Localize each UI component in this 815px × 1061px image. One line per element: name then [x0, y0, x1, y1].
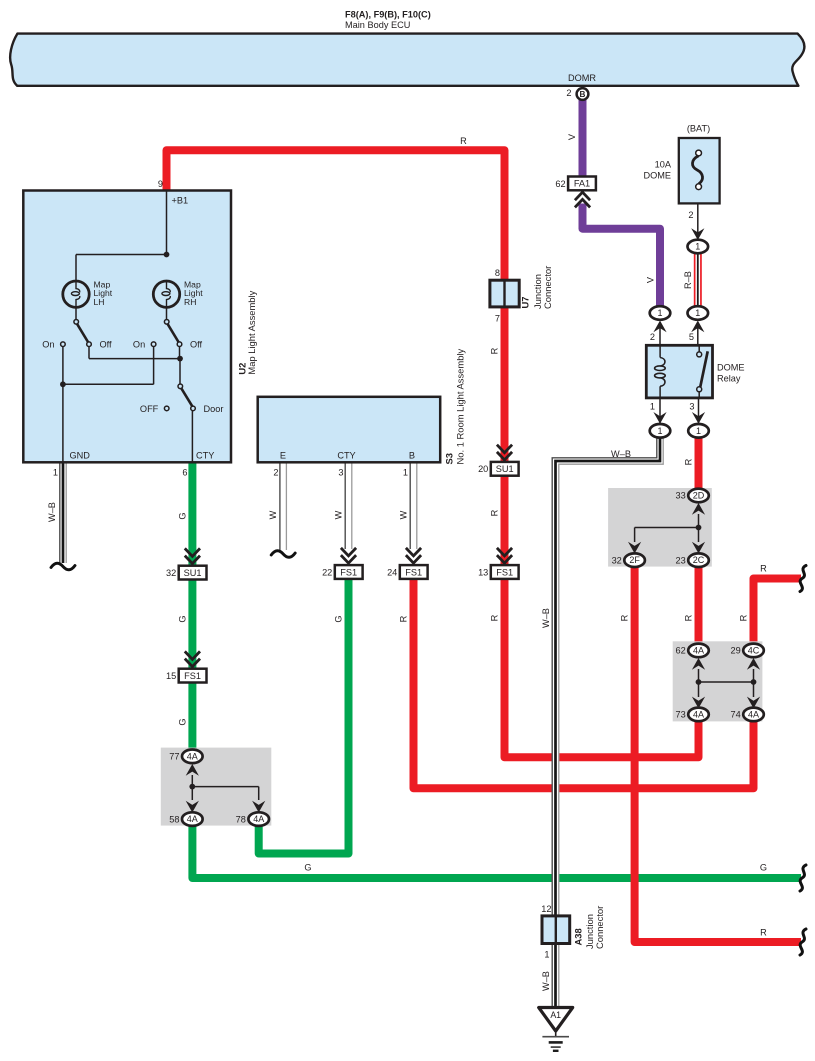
svg-text:FA1: FA1: [574, 179, 590, 189]
splice 32 2F oval: [624, 553, 645, 567]
junction connector U7 box: [490, 280, 519, 307]
splice 58 4A oval: [182, 812, 203, 826]
svg-text:Off: Off: [100, 340, 113, 350]
tear tilde on GND W-B wire: [51, 563, 75, 570]
svg-text:1: 1: [657, 426, 662, 436]
svg-text:2: 2: [650, 332, 655, 342]
wire inside from +B1 to node: [166, 191, 168, 255]
svg-text:DOME: DOME: [717, 363, 745, 373]
svg-text:G: G: [178, 718, 188, 725]
wire G from 22 FS1 down, left, up to 78-4A: [259, 578, 349, 854]
chevrons into 15 FS1: [185, 659, 200, 667]
svg-text:FS1: FS1: [496, 567, 513, 577]
svg-text:A38: A38: [573, 928, 584, 945]
svg-text:1: 1: [650, 402, 655, 412]
svg-text:RH: RH: [184, 297, 196, 307]
wire fuse pin2 to oval: [697, 203, 699, 240]
junction 20 SU1: [491, 462, 519, 476]
door switch OFF contact: [164, 406, 169, 411]
switch RH: [164, 320, 169, 325]
switch LH Off contact: [87, 342, 92, 347]
splice 29 4C oval: [743, 644, 764, 658]
wire bulb LH to switch: [75, 307, 77, 319]
wire R from relay pin3 oval to 2D oval: [695, 436, 703, 490]
wire bulb RH to switch: [166, 307, 168, 319]
wire W-B from relay pin1 oval to A38 to ground: [556, 436, 661, 1008]
svg-text:1: 1: [696, 426, 701, 436]
svg-text:W–B: W–B: [541, 608, 551, 628]
svg-text:32: 32: [166, 568, 176, 578]
svg-text:1: 1: [403, 468, 408, 478]
svg-text:13: 13: [478, 567, 488, 577]
svg-text:4A: 4A: [748, 709, 759, 719]
chevrons into 13 FS1: [497, 555, 512, 563]
wire node to GND pin: [62, 384, 64, 461]
arrow down into 2F: [628, 542, 641, 554]
wire to LH bulb: [76, 254, 167, 256]
wire W from room light E pin2: [280, 461, 287, 550]
relay pin2 oval: [650, 306, 671, 320]
svg-text:E: E: [280, 451, 286, 461]
junction FA1 box: [568, 177, 596, 191]
wire RH Off to node: [179, 347, 181, 359]
splice 77 4A oval: [182, 750, 203, 764]
svg-text:4A: 4A: [187, 814, 198, 824]
svg-text:15: 15: [166, 671, 176, 681]
gray splice block 4A/4C: [673, 641, 763, 721]
arrow up into 2D: [692, 503, 705, 515]
svg-text:4A: 4A: [253, 814, 264, 824]
svg-text:SU1: SU1: [184, 568, 202, 578]
wire R right mid tear to 29-4C: [754, 579, 802, 646]
fuse element: [696, 150, 702, 156]
chevrons into 20 SU1: [497, 452, 512, 460]
svg-text:FS1: FS1: [340, 567, 357, 577]
gray splice block 2D/2F/2C: [608, 488, 712, 567]
svg-text:Map Light Assembly: Map Light Assembly: [246, 290, 257, 374]
ECU pin 2 B connector: [577, 88, 589, 100]
svg-text:78: 78: [236, 814, 246, 824]
svg-text:2: 2: [566, 88, 571, 98]
wire G from map light pin 6 CTY to SU1/FS1: [188, 461, 196, 552]
svg-text:W–B: W–B: [611, 449, 631, 459]
ground bars: [542, 1036, 569, 1038]
wire LH Off to node: [88, 347, 90, 359]
chevrons into 32 SU1: [185, 556, 200, 564]
svg-text:62: 62: [675, 646, 685, 656]
svg-text:OFF: OFF: [140, 404, 159, 414]
no.1 room light assembly box S3: [258, 397, 441, 463]
arrows down into 73/74: [692, 697, 705, 709]
wire W from room light B pin1: [410, 461, 417, 549]
svg-text:G: G: [334, 615, 344, 622]
svg-text:R: R: [490, 614, 500, 621]
arrow down from pin1: [653, 412, 666, 424]
splice 33 2D oval: [688, 489, 709, 503]
wire G from 58-4A down to long bus tear: [192, 824, 801, 878]
svg-text:74: 74: [730, 710, 740, 720]
arrow up into pin5 oval: [691, 321, 704, 333]
wire R from 2F down to bottom bus to right tear: [635, 565, 801, 942]
svg-text:V: V: [646, 276, 656, 283]
splice 23 2C oval: [688, 553, 709, 567]
svg-text:3: 3: [689, 402, 694, 412]
node in block1: [696, 525, 702, 531]
svg-text:1: 1: [695, 308, 700, 318]
svg-text:W: W: [399, 510, 409, 519]
switch LH On contact: [61, 342, 66, 347]
wire V purple from DOMR B to FA1 and to relay pin2 oval: [579, 98, 587, 178]
door switch blade: [181, 388, 192, 406]
nodes in block2: [696, 679, 702, 685]
svg-text:Connector: Connector: [542, 266, 553, 309]
relay coil: [659, 345, 661, 357]
svg-text:Door: Door: [204, 404, 224, 414]
svg-text:Connector: Connector: [594, 906, 605, 949]
wire node to door switch: [179, 359, 181, 384]
svg-text:32: 32: [612, 555, 622, 565]
svg-text:2C: 2C: [693, 555, 705, 565]
node +B1 split: [164, 252, 170, 258]
ground stem: [555, 1031, 557, 1037]
arrow down below fuse: [691, 228, 704, 240]
junction 15 FS1: [179, 669, 207, 683]
splice 78 4A oval: [248, 812, 269, 826]
svg-text:W: W: [268, 510, 278, 519]
door switch Door contact: [191, 406, 196, 411]
svg-text:U7: U7: [520, 297, 531, 309]
junction connector A38 box: [542, 916, 570, 944]
svg-text:10A: 10A: [655, 160, 672, 170]
svg-text:4C: 4C: [748, 645, 760, 655]
svg-text:24: 24: [387, 567, 397, 577]
svg-text:33: 33: [675, 491, 685, 501]
svg-text:R–B: R–B: [683, 271, 693, 289]
svg-text:R: R: [399, 615, 409, 622]
arrow down into 2C: [692, 542, 705, 554]
svg-text:DOMR: DOMR: [568, 73, 596, 83]
arrow up into 77: [186, 764, 199, 776]
switch RH Off contact: [177, 342, 182, 347]
svg-text:+B1: +B1: [172, 196, 189, 206]
svg-text:73: 73: [675, 710, 685, 720]
wire W-B from map light GND pin1 to tilde: [60, 461, 67, 563]
arrow up into pin2 oval: [653, 321, 666, 333]
svg-text:G: G: [178, 615, 188, 622]
junction 24 FS1: [400, 565, 428, 579]
chevrons up into FA1: [575, 192, 590, 200]
tear on G bus: [800, 865, 806, 891]
svg-text:6: 6: [182, 468, 187, 478]
chevrons into 24 FS1: [406, 555, 421, 563]
svg-text:No. 1 Room Light Assembly: No. 1 Room Light Assembly: [455, 349, 466, 465]
svg-text:B: B: [409, 451, 415, 461]
arrow down from pin3: [692, 412, 705, 424]
svg-text:4A: 4A: [693, 709, 704, 719]
relay pin5 oval: [688, 306, 709, 320]
svg-text:1: 1: [544, 950, 549, 960]
svg-text:DOME: DOME: [643, 171, 671, 181]
wire W from room light CTY pin3: [345, 461, 352, 549]
svg-text:FS1: FS1: [184, 671, 201, 681]
svg-text:FS1: FS1: [405, 567, 422, 577]
svg-text:CTY: CTY: [196, 451, 214, 461]
svg-text:22: 22: [322, 567, 332, 577]
svg-text:LH: LH: [94, 297, 105, 307]
junction 32 SU1: [179, 566, 207, 580]
relay pin3 oval: [688, 424, 709, 438]
fuse output oval: [688, 240, 709, 254]
svg-text:R: R: [760, 564, 767, 574]
svg-text:20: 20: [478, 464, 488, 474]
svg-text:S3: S3: [444, 453, 455, 464]
arrows down into 58/78: [186, 801, 199, 813]
junction 22 FS1: [335, 565, 363, 579]
svg-text:R: R: [460, 136, 467, 146]
wire relay pin3 stub: [698, 397, 700, 424]
svg-text:5: 5: [689, 332, 694, 342]
splice 62 4A oval: [688, 644, 709, 658]
svg-text:29: 29: [730, 646, 740, 656]
wire R from 24 FS1 down to corner right up to 74-4A: [414, 578, 754, 788]
svg-text:R: R: [684, 614, 694, 621]
svg-text:CTY: CTY: [337, 451, 355, 461]
svg-text:8: 8: [495, 268, 500, 278]
svg-text:7: 7: [495, 314, 500, 324]
tear tilde on E wire: [271, 551, 295, 558]
svg-text:R: R: [490, 509, 500, 516]
switch LH: [74, 320, 79, 325]
svg-text:W: W: [334, 510, 344, 519]
fuse 10A DOME box: [679, 138, 720, 203]
svg-text:W–B: W–B: [541, 971, 551, 991]
map light assembly box U2: [23, 191, 231, 463]
ground A1 triangle: [539, 1008, 573, 1032]
svg-text:2D: 2D: [693, 491, 705, 501]
splice 73 4A oval: [688, 708, 709, 722]
main body ECU F8/F9/F10 band: [10, 34, 804, 86]
svg-text:Off: Off: [190, 340, 203, 350]
wire R from 2C to 62-4A: [695, 565, 703, 645]
svg-text:G: G: [304, 862, 311, 872]
svg-text:1: 1: [53, 468, 58, 478]
svg-text:3: 3: [338, 468, 343, 478]
svg-text:V: V: [567, 133, 577, 140]
svg-text:2: 2: [273, 468, 278, 478]
relay switch: [698, 345, 700, 352]
junction 13 FS1: [491, 565, 519, 579]
wire G SU1 to FS1 to 77-4A: [188, 552, 196, 751]
door switch hinge: [178, 384, 183, 389]
svg-text:R: R: [760, 928, 767, 938]
relay pin1 oval: [650, 424, 671, 438]
svg-text:77: 77: [169, 752, 179, 762]
svg-text:R: R: [739, 614, 749, 621]
svg-text:W–B: W–B: [47, 502, 57, 522]
svg-text:62: 62: [555, 179, 565, 189]
svg-text:58: 58: [169, 814, 179, 824]
wire relay pin2 stub: [659, 322, 661, 346]
wire relay pin1 stub: [659, 397, 661, 424]
wire door to CTY pin: [191, 411, 193, 462]
node on-join: [60, 381, 66, 387]
svg-text:A1: A1: [550, 1010, 561, 1020]
svg-text:1: 1: [657, 308, 662, 318]
wire R from map light pin 9 to U7/SU1/FS1 column: [167, 150, 505, 448]
map light LH bulb: [63, 281, 89, 307]
svg-text:Relay: Relay: [717, 374, 741, 384]
tear on R bottom bus: [800, 929, 806, 955]
switch RH On contact: [151, 342, 156, 347]
svg-text:2F: 2F: [629, 555, 640, 565]
svg-text:9: 9: [158, 179, 163, 189]
tear on R mid wire: [800, 566, 806, 592]
svg-text:On: On: [42, 340, 54, 350]
svg-text:R: R: [684, 458, 694, 465]
svg-text:G: G: [760, 862, 767, 872]
svg-text:R: R: [490, 347, 500, 354]
gray splice block 77/58/78 4A: [161, 748, 271, 826]
svg-text:23: 23: [675, 555, 685, 565]
svg-text:B: B: [580, 90, 586, 99]
dome relay box: [646, 345, 712, 398]
svg-text:4A: 4A: [187, 751, 198, 761]
svg-text:4A: 4A: [693, 645, 704, 655]
node off-join: [177, 356, 183, 362]
map light RH bulb: [153, 281, 179, 307]
svg-text:GND: GND: [70, 451, 91, 461]
svg-text:G: G: [178, 512, 188, 519]
wire On contacts join: [62, 347, 64, 385]
splice 74 4A oval: [743, 708, 764, 722]
svg-text:F8(A), F9(B), F10(C): F8(A), F9(B), F10(C): [345, 10, 431, 20]
svg-text:1: 1: [695, 242, 700, 252]
svg-text:(BAT): (BAT): [687, 124, 710, 134]
svg-text:12: 12: [541, 904, 551, 914]
node in block3: [189, 784, 195, 790]
svg-text:Main Body ECU: Main Body ECU: [345, 20, 410, 30]
chevrons into 22 FS1: [341, 555, 356, 563]
svg-text:SU1: SU1: [496, 464, 514, 474]
svg-text:On: On: [133, 340, 145, 350]
wire R U7 to SU1 to FS1 to bottom corner to 73-4A: [505, 448, 699, 757]
arrows up into 62/29: [692, 658, 705, 670]
svg-text:R: R: [620, 614, 630, 621]
wire relay pin5 stub: [697, 322, 699, 346]
wire R-B fuse to relay pin5: [694, 252, 702, 309]
svg-text:2: 2: [688, 210, 693, 220]
